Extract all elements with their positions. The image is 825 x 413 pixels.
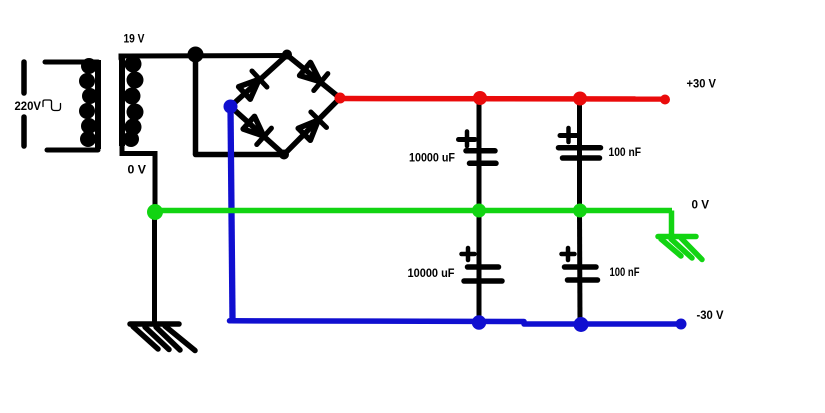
capacitor C1 10000uF top: [466, 151, 496, 164]
wire secondary bottom lead: [122, 143, 155, 213]
diode D2 (top node to right node): [298, 61, 328, 91]
node junction dot on top wire: [188, 47, 204, 63]
polarity + of C1: [459, 132, 476, 147]
diode D1 (left node to top node): [237, 71, 267, 101]
wire transformer 0V to ground (black): [152, 213, 157, 322]
svg-text:100 nF: 100 nF: [610, 267, 640, 279]
wire primary top lead: [45, 60, 98, 65]
AC source prong bottom: [21, 117, 27, 146]
wire C4 stem (green rail to blue rail): [577, 211, 583, 324]
bridge edge bottom-right: [284, 98, 340, 155]
node blue rail end: [676, 319, 687, 330]
node blue dot at C4: [574, 317, 589, 332]
svg-text:10000 uF: 10000 uF: [409, 153, 455, 165]
capacitor C4 100nF bottom: [565, 267, 598, 280]
wire -30V rail right segment (blue): [524, 321, 678, 327]
polarity + of C2: [560, 128, 577, 142]
svg-text:+30 V: +30 V: [687, 79, 717, 91]
svg-text:0 V: 0 V: [128, 165, 147, 177]
bridge edge top-left: [231, 55, 288, 107]
wire primary bottom lead: [47, 148, 98, 153]
node green dot at C1/C3: [472, 204, 486, 218]
svg-text:19 V: 19 V: [124, 34, 145, 46]
wire secondary top to bridge top node: [121, 56, 287, 60]
wire green drop to ground: [669, 211, 675, 235]
node green dot at C2/C4: [573, 204, 587, 218]
node bridge right (red): [335, 93, 346, 104]
transformer T1 secondary winding: [122, 56, 144, 148]
svg-text:-30 V: -30 V: [697, 310, 724, 322]
polarity + of C4: [562, 248, 575, 260]
diode D4 (bottom node to right node): [296, 112, 326, 142]
polarity + of C3: [462, 248, 475, 260]
wire +30V rail (red): [340, 96, 665, 102]
node bridge left (blue): [224, 100, 238, 114]
bridge edge top-right: [287, 55, 340, 98]
diode D3 (left node to bottom node): [241, 114, 271, 144]
wire -30V rail left segment (blue): [230, 318, 525, 324]
wire C2 stem (red rail to green rail): [577, 98, 582, 211]
svg-text:10000 uF: 10000 uF: [408, 268, 455, 280]
node green dot at transformer: [147, 204, 163, 220]
capacitor C2 100nF top: [559, 148, 601, 158]
wire 0V rail (green): [155, 208, 672, 214]
svg-text:220V: 220V: [15, 101, 42, 113]
wire -30V vertical (blue): [231, 107, 233, 320]
node bridge top: [282, 50, 292, 60]
node bridge bottom: [279, 150, 289, 160]
node red dot at C2: [573, 92, 587, 106]
node red dot at C1: [473, 91, 487, 105]
node blue dot at C3: [472, 315, 486, 329]
wire C3 stem (green rail to blue rail): [477, 211, 482, 322]
node red rail end: [660, 95, 670, 105]
ground (black): [130, 324, 195, 351]
svg-text:100 nF: 100 nF: [609, 147, 642, 159]
wire bottom horizontal to bridge bottom node: [196, 152, 285, 158]
wire C1 stem (red rail to green rail): [477, 98, 482, 211]
bridge edge bottom-left: [231, 107, 285, 155]
svg-text:0 V: 0 V: [692, 200, 710, 212]
AC source prong top: [21, 62, 27, 93]
AC sine symbol: [43, 100, 61, 111]
wire left vertical (top wire to bridge bottom): [193, 55, 199, 155]
capacitor C3 10000uF bottom: [464, 267, 502, 281]
transformer T1 primary winding: [79, 58, 98, 149]
ground (green, 0V): [658, 237, 702, 260]
